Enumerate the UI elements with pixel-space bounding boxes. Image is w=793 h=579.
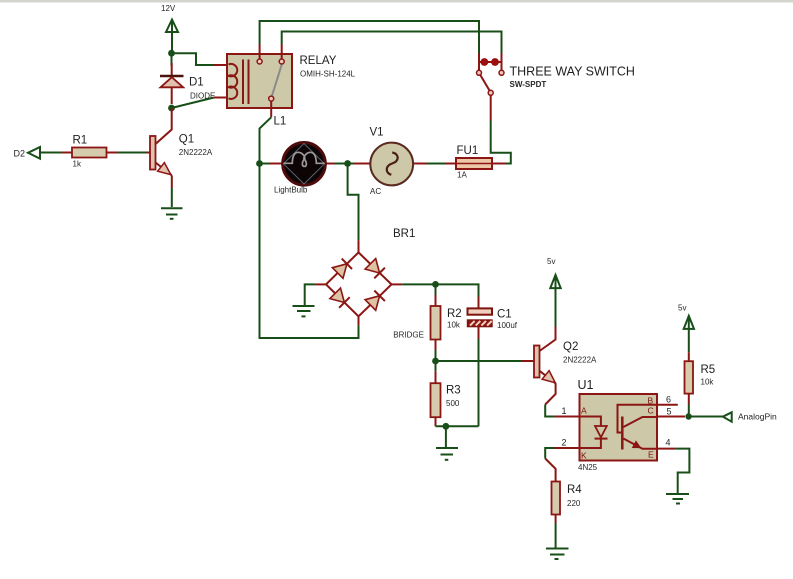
U1 pin 2 — [555, 447, 580, 449]
wire bridge left to ground — [305, 284, 316, 305]
switch contact right — [499, 70, 504, 75]
node V1 left junction — [344, 160, 351, 167]
svg-text:R4: R4 — [567, 484, 582, 496]
ground U1 pin4 — [666, 494, 689, 504]
svg-text:LightBulb: LightBulb — [274, 186, 308, 195]
svg-text:R2: R2 — [447, 308, 462, 320]
svg-text:D2: D2 — [14, 149, 26, 159]
relay contact NO — [257, 59, 262, 64]
svg-text:6: 6 — [666, 395, 671, 405]
bridge BR1 diamond — [326, 252, 392, 316]
svg-text:2: 2 — [562, 438, 567, 448]
svg-text:1: 1 — [562, 406, 567, 416]
relay coil pin stubs — [214, 65, 229, 98]
wire relay pinA to switch left terminal (top rail) — [260, 21, 479, 53]
wire bridge right to R2/C1 — [402, 284, 478, 296]
terminal D2 — [14, 147, 41, 159]
wire R1 to Q1 base — [118, 152, 147, 154]
svg-text:C: C — [648, 406, 654, 416]
power +12V symbol — [166, 20, 178, 54]
svg-text:100uf: 100uf — [497, 321, 518, 330]
switch pole contact — [488, 90, 493, 95]
window top border — [0, 0, 793, 3]
wire D2 to R1 — [40, 152, 62, 154]
U1 internal phototransistor — [618, 405, 658, 450]
ground bridge — [293, 306, 315, 316]
lamp L1 — [270, 143, 335, 186]
wire junction to AnalogPin — [689, 416, 723, 418]
wire junction to bulb — [260, 163, 271, 165]
wire junction down to bridge top — [348, 164, 359, 241]
wire bulb to V1 junction — [335, 163, 348, 165]
svg-text:U1: U1 — [578, 378, 594, 392]
svg-text:1A: 1A — [457, 171, 467, 180]
power 5v symbol R5 — [684, 316, 694, 352]
relay contact NC — [279, 59, 284, 64]
svg-text:Q1: Q1 — [179, 134, 194, 146]
svg-text:FU1: FU1 — [457, 145, 479, 157]
resistor R3 — [431, 361, 441, 426]
bridge diode bottom-left — [330, 288, 350, 308]
svg-text:DIODE: DIODE — [190, 92, 215, 101]
svg-text:B: B — [648, 396, 654, 406]
resistor R1 — [62, 148, 118, 158]
wire Q2 emitter to U1 pin1 — [545, 405, 554, 417]
svg-text:A: A — [581, 406, 587, 416]
node pin5 junction — [685, 413, 691, 419]
node R2 top junction — [432, 281, 439, 288]
svg-text:4: 4 — [666, 438, 671, 448]
wire 12V junction down to D1 cathode — [171, 53, 173, 66]
ground Q1 — [161, 208, 183, 219]
bridge diode top-left — [332, 259, 352, 279]
relay coil — [229, 64, 238, 99]
svg-text:500: 500 — [446, 399, 460, 408]
AC source V1 — [348, 143, 427, 186]
svg-text:220: 220 — [567, 499, 581, 508]
resistor R5 — [685, 352, 694, 416]
node 12V junction — [168, 50, 175, 57]
terminal AnalogPin — [723, 412, 732, 421]
svg-text:R5: R5 — [701, 364, 716, 376]
svg-text:RELAY: RELAY — [300, 55, 337, 67]
wire relay pinB to switch right terminal (second rail) — [282, 32, 502, 54]
U1 pin 1 — [555, 416, 580, 418]
svg-text:R3: R3 — [446, 385, 461, 397]
relay switch arm — [272, 64, 282, 96]
svg-text:5v: 5v — [547, 257, 555, 266]
svg-text:OMIH-SH-124L: OMIH-SH-124L — [300, 70, 356, 79]
svg-text:1k: 1k — [73, 160, 82, 169]
svg-text:5: 5 — [667, 407, 672, 417]
svg-text:SW-SPDT: SW-SPDT — [510, 80, 547, 89]
svg-text:K: K — [581, 451, 587, 461]
node R2 bottom junction — [432, 358, 439, 365]
fuse FU1 — [444, 158, 506, 169]
ground R3/C1 — [436, 448, 458, 460]
node collector junction — [168, 105, 175, 112]
svg-text:R1: R1 — [73, 135, 88, 147]
bridge diode bottom-right — [365, 291, 385, 311]
diode D1 — [160, 63, 184, 104]
svg-text:12V: 12V — [161, 4, 176, 13]
svg-text:4N25: 4N25 — [578, 463, 598, 472]
wire junction to relay coil pin B (diagonal) — [172, 98, 215, 109]
svg-text:AC: AC — [370, 187, 381, 196]
wire junction to Q2 base — [436, 360, 523, 362]
power 5v symbol Q2 — [550, 275, 560, 328]
wire R4 to ground — [555, 523, 557, 548]
ground R4 — [546, 549, 569, 560]
switch pole pin — [490, 95, 492, 120]
three way switch terminals stubs — [479, 53, 502, 70]
wire U1 pin4 to ground — [676, 449, 690, 493]
relay pin stubs top — [260, 44, 282, 117]
svg-text:BRIDGE: BRIDGE — [393, 331, 424, 340]
svg-text:10k: 10k — [701, 378, 715, 387]
relay contact pole — [269, 96, 274, 101]
bridge BR1 pins — [316, 240, 402, 325]
wire C1 down — [478, 339, 480, 426]
svg-text:E: E — [648, 450, 654, 460]
wire switch pole to fuse right — [491, 121, 511, 164]
switch arm — [480, 75, 490, 92]
switch state dots — [480, 58, 501, 66]
wire to ground — [445, 426, 447, 447]
transistor Q1 — [150, 108, 172, 188]
optocoupler U1 body — [580, 394, 658, 461]
wire 12V junction to relay coil pin A — [172, 53, 215, 65]
node ground junction — [443, 423, 450, 430]
svg-text:AnalogPin: AnalogPin — [738, 412, 777, 422]
U1 internal LED — [580, 417, 608, 449]
svg-text:5v: 5v — [678, 304, 686, 313]
bridge diode top-right — [365, 259, 385, 279]
wire relay pole to L1 row — [260, 117, 272, 163]
capacitor C1 — [468, 297, 493, 340]
node L1 left junction — [256, 160, 263, 167]
relay RL1 body — [227, 54, 292, 108]
svg-text:L1: L1 — [274, 116, 287, 128]
svg-text:BR1: BR1 — [393, 228, 415, 240]
resistor R4 — [545, 459, 560, 524]
U1 pin 5 — [657, 416, 685, 418]
svg-text:2N2222A: 2N2222A — [179, 148, 213, 157]
wire bottom R3/C1 rail — [436, 425, 479, 427]
svg-text:2N2222A: 2N2222A — [563, 356, 597, 365]
svg-text:Q2: Q2 — [563, 341, 578, 353]
wire Q1 emitter to ground — [171, 188, 173, 207]
U1 pin 6 — [657, 404, 678, 406]
svg-text:V1: V1 — [370, 127, 384, 139]
wire L1 junction down to bottom rail — [260, 164, 359, 339]
svg-text:10k: 10k — [447, 321, 461, 330]
wire V1 to fuse — [427, 163, 446, 165]
resistor R2 — [431, 284, 441, 361]
svg-text:THREE WAY SWITCH: THREE WAY SWITCH — [510, 65, 635, 79]
svg-text:D1: D1 — [189, 77, 204, 89]
relay core bars — [243, 60, 249, 105]
U1 pin 4 — [657, 448, 676, 450]
svg-text:C1: C1 — [497, 309, 512, 321]
wire U1 pin2 to R4 — [545, 448, 554, 459]
switch contact left — [477, 70, 482, 75]
transistor Q2 — [522, 327, 556, 405]
